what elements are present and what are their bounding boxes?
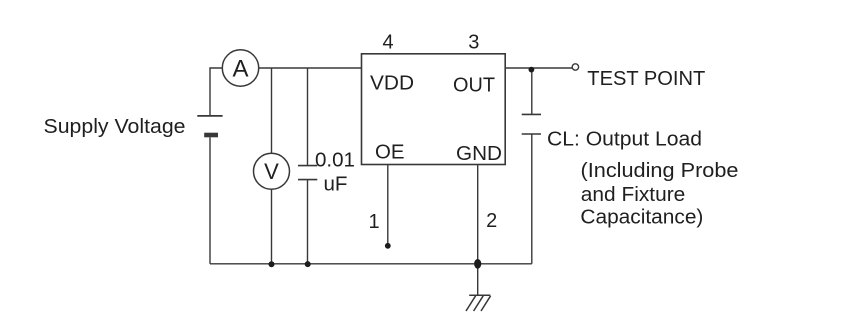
wire: bottom bus: [210, 263, 532, 265]
voltmeter V: [254, 153, 290, 189]
battery BT1 positive plate: [197, 115, 222, 117]
svg-text:TEST POINT: TEST POINT: [587, 68, 705, 90]
capacitor C1 top plate: [298, 165, 317, 167]
svg-text:GND: GND: [456, 143, 502, 165]
svg-text:V: V: [264, 159, 279, 184]
svg-text:Capacitance): Capacitance): [580, 207, 703, 229]
svg-text:Supply Voltage: Supply Voltage: [44, 116, 186, 138]
svg-text:and Fixture: and Fixture: [581, 184, 686, 206]
svg-text:OUT: OUT: [453, 75, 495, 97]
ground hatch 2: [474, 296, 484, 311]
junction: voltmeter / bottom bus: [269, 261, 275, 267]
wire: ammeter right to IC VDD pin (left edge): [259, 67, 362, 69]
wire: OE pin 1 stub: [387, 165, 389, 246]
svg-text:(Including Probe: (Including Probe: [581, 160, 739, 182]
wire: top bus, battery corner to ammeter left: [210, 68, 222, 116]
wire: OUT pin to test point: [505, 67, 572, 69]
wire: battery negative down to bottom bus: [209, 137, 211, 263]
junction: capacitor C1 / bottom bus: [305, 261, 311, 267]
ammeter A: [222, 50, 258, 86]
capacitor CL bottom plate: [522, 133, 541, 135]
svg-text:3: 3: [468, 32, 479, 54]
svg-text:OE: OE: [375, 141, 405, 163]
svg-text:0.01: 0.01: [315, 149, 355, 171]
junction: GND / bottom bus / ground: [474, 259, 481, 269]
svg-text:1: 1: [368, 211, 379, 233]
ground hatch 1: [466, 296, 476, 311]
wire: capacitor C1 top lead: [307, 68, 309, 166]
svg-text:uF: uF: [324, 174, 348, 196]
wire: voltmeter bottom lead: [271, 189, 273, 263]
IC U1 body: [362, 54, 506, 165]
battery BT1 negative plate (thick): [204, 133, 218, 138]
ground hatch 3: [481, 296, 491, 311]
svg-text:2: 2: [486, 210, 497, 232]
test point terminal: [572, 64, 578, 70]
ground bar: [469, 294, 490, 296]
wire: CL bottom lead: [531, 134, 533, 264]
svg-text:4: 4: [382, 32, 393, 54]
capacitor CL top plate: [522, 113, 541, 115]
svg-text:CL: Output Load: CL: Output Load: [547, 129, 702, 151]
junction: OUT node / CL tap: [529, 67, 535, 73]
node: OE pin 1 open end: [385, 243, 391, 249]
svg-text:A: A: [232, 55, 248, 82]
capacitor C1 bottom plate: [298, 179, 317, 181]
wire: capacitor C1 bottom lead: [307, 180, 309, 264]
wire: CL top lead: [531, 68, 533, 114]
svg-text:VDD: VDD: [370, 73, 414, 95]
wire: voltmeter top lead: [271, 68, 273, 153]
wire: GND pin 2 down to bottom bus and ground: [477, 165, 479, 295]
